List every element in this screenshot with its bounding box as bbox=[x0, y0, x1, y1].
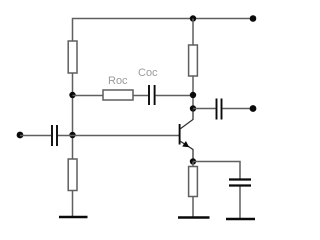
transistor Q1 base bar bbox=[179, 124, 181, 145]
resistor R3 (collector load resistor) bbox=[189, 45, 198, 76]
svg-text:Roc: Roc bbox=[108, 75, 128, 87]
wire: R3 bottom to collector node bbox=[192, 76, 194, 109]
wire: emitter junction to R4 bbox=[192, 162, 194, 167]
transistor Q1 collector lead bbox=[180, 109, 193, 130]
capacitor C1 (input coupling) bbox=[52, 125, 57, 146]
ground (left, under R2) bbox=[59, 216, 88, 219]
ground (middle, under R4) bbox=[178, 216, 210, 219]
wire: bypass capacitor to ground bbox=[239, 187, 241, 219]
node: supply terminal (top right) bbox=[250, 15, 257, 22]
node: collector / feedback junction bbox=[190, 92, 196, 98]
wire: input terminal to coupling capacitor bbox=[20, 135, 51, 137]
capacitor C3 (emitter bypass) bbox=[229, 180, 251, 186]
node: output terminal bbox=[250, 105, 257, 112]
wire: base line (capacitor to transistor base) bbox=[58, 135, 179, 137]
resistor R2 (lower bias resistor, left column) bbox=[68, 159, 77, 191]
resistor R4 (emitter resistor) bbox=[189, 167, 198, 197]
wire: collector column vertical (supply to collector) bbox=[192, 19, 194, 46]
resistor R1 (upper bias resistor, left column) bbox=[68, 41, 77, 73]
wire: top supply rail bbox=[73, 19, 254, 42]
wire: output capacitor to output terminal bbox=[223, 108, 251, 110]
node: collector / output junction bbox=[190, 105, 196, 111]
svg-text:Coc: Coc bbox=[138, 67, 158, 79]
wire: Roc to Coc bbox=[133, 95, 148, 97]
wire: bias junction to Roc bbox=[73, 95, 104, 97]
wire: R2 bottom to ground bbox=[72, 191, 74, 217]
node: supply junction at collector branch bbox=[190, 15, 196, 21]
capacitor Coc (feedback capacitor) bbox=[149, 85, 155, 105]
transistor Q1 emitter arrow bbox=[182, 141, 189, 147]
wire: output junction to output capacitor bbox=[193, 108, 216, 110]
wire: Coc to collector column bbox=[156, 95, 193, 97]
node: input terminal bbox=[17, 132, 24, 139]
node: base bias junction (left, to Roc) bbox=[69, 92, 75, 98]
capacitor C2 (output coupling) bbox=[217, 99, 222, 120]
node: emitter junction bbox=[190, 158, 196, 164]
transistor Q1 emitter lead bbox=[180, 141, 193, 162]
transistor Q1 (NPN) bbox=[180, 109, 193, 162]
wire: left column vertical (R1 bottom to R2 top) bbox=[72, 73, 74, 159]
ground (right, under C3) bbox=[226, 218, 255, 221]
node: input junction (left column, base line) bbox=[69, 132, 75, 138]
resistor Roc (feedback resistor, horizontal) bbox=[103, 90, 133, 100]
wire: emitter junction to bypass capacitor bbox=[193, 162, 240, 179]
wire: R4 bottom to ground bbox=[192, 197, 194, 217]
